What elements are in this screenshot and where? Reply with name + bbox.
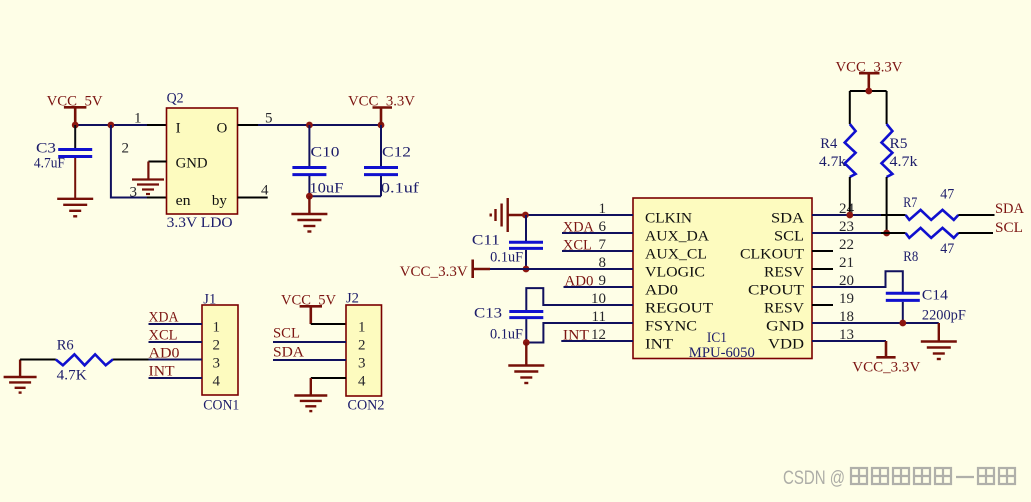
- svg-text:SDA: SDA: [273, 344, 304, 360]
- capacitor C12: [364, 125, 419, 197]
- svg-text:4.7K: 4.7K: [57, 367, 87, 383]
- wire REGOUT (pin 10) with step to C13: [526, 288, 633, 310]
- svg-text:VCC_3.3V: VCC_3.3V: [852, 359, 920, 375]
- wire VDD (pin 13): [812, 340, 886, 342]
- pin 1 stub of Q2: [147, 124, 167, 126]
- wire CPOUT (pin 20) with step to C14: [812, 271, 903, 292]
- power flag VCC_5V (J2): [300, 306, 322, 324]
- svg-text:SCL: SCL: [273, 326, 300, 342]
- svg-text:SCL: SCL: [774, 229, 804, 245]
- svg-text:CSDN @: CSDN @: [783, 468, 845, 489]
- svg-text:VCC_3.3V: VCC_3.3V: [400, 264, 468, 280]
- wire INT (pin 12): [561, 340, 633, 342]
- svg-text:R5: R5: [890, 136, 908, 152]
- svg-text:C12: C12: [382, 144, 411, 160]
- junction C14/GND: [899, 320, 906, 327]
- svg-text:4.7k: 4.7k: [890, 154, 919, 170]
- svg-text:VDD: VDD: [768, 337, 804, 353]
- wire FSYNC (pin 11) with step to C13 bottom: [526, 323, 633, 343]
- resistor R5: [882, 91, 919, 233]
- resistor R4: [819, 91, 856, 215]
- junction C12/VCC top: [378, 122, 385, 129]
- svg-text:C10: C10: [311, 144, 340, 160]
- svg-text:2: 2: [213, 338, 221, 354]
- svg-text:SCL: SCL: [995, 220, 1023, 236]
- svg-text:MPU-6050: MPU-6050: [689, 345, 755, 361]
- svg-text:47: 47: [940, 187, 954, 203]
- svg-text:19: 19: [839, 291, 854, 307]
- svg-text:CON2: CON2: [348, 398, 385, 414]
- svg-text:C3: C3: [36, 140, 56, 156]
- stub pin 21: [812, 268, 833, 270]
- svg-text:3: 3: [358, 356, 366, 372]
- junction B (branch to en): [108, 122, 115, 129]
- svg-text:C14: C14: [922, 288, 949, 304]
- svg-text:VCC_3.3V: VCC_3.3V: [348, 93, 415, 109]
- svg-text:GND: GND: [766, 319, 804, 335]
- svg-text:VCC_3.3V: VCC_3.3V: [836, 59, 903, 75]
- svg-text:XDA: XDA: [149, 309, 179, 325]
- wire AUX_CL (pin 7): [562, 250, 633, 252]
- svg-text:RESV: RESV: [764, 301, 804, 317]
- svg-text:AD0: AD0: [645, 283, 678, 299]
- svg-text:VCC_5V: VCC_5V: [281, 292, 336, 308]
- pin 5 stub of Q2 (O): [238, 124, 259, 126]
- junction R5/SCL: [883, 230, 890, 237]
- svg-text:VLOGIC: VLOGIC: [645, 265, 705, 281]
- svg-text:FSYNC: FSYNC: [645, 319, 697, 335]
- svg-text:1: 1: [358, 320, 366, 336]
- svg-text:I: I: [176, 120, 181, 136]
- svg-text:XCL: XCL: [149, 327, 178, 343]
- svg-text:VCC_5V: VCC_5V: [47, 93, 103, 109]
- svg-text:XDA: XDA: [563, 219, 594, 235]
- svg-text:4.7k: 4.7k: [819, 154, 847, 170]
- wire SCL (J2 pin2): [273, 341, 346, 343]
- svg-text:0.1uf: 0.1uf: [381, 181, 419, 197]
- wire CLKIN (pin 1): [525, 214, 633, 216]
- ground (C3): [57, 199, 93, 217]
- wire R4/R5 top bar: [850, 90, 887, 92]
- wire SCL (pin 23): [812, 232, 881, 234]
- wire branch down to en: [111, 125, 147, 198]
- svg-text:INT: INT: [563, 327, 589, 343]
- svg-text:4: 4: [261, 182, 269, 198]
- svg-text:XCL: XCL: [563, 237, 592, 253]
- wire AD0 (J1 pin3): [149, 359, 203, 361]
- wire INT (J1 pin4): [149, 377, 203, 379]
- svg-text:4.7uF: 4.7uF: [34, 155, 65, 171]
- svg-text:J2: J2: [346, 290, 359, 306]
- power port VCC_3.3V (VLOGIC): [473, 260, 490, 279]
- op-amp-like IC U1 box: ic IC1 MPU-6050: [633, 198, 812, 361]
- stub J2 pin4: [311, 377, 346, 379]
- svg-text:AUX_CL: AUX_CL: [645, 247, 707, 263]
- capacitor C10: [292, 125, 343, 197]
- svg-text:47: 47: [940, 241, 954, 257]
- power flag VCC_3.3V (LDO output): [373, 108, 393, 126]
- stub pin 22: [812, 250, 833, 252]
- wire pin5 to VCC_3.3V: [258, 124, 381, 126]
- junction VLOGIC/C11: [523, 266, 530, 273]
- junction C13 bottom: [523, 339, 530, 346]
- svg-text:INT: INT: [149, 363, 175, 379]
- svg-text:CLKIN: CLKIN: [645, 210, 692, 226]
- svg-text:C11: C11: [472, 233, 500, 249]
- svg-text:2200pF: 2200pF: [922, 308, 966, 324]
- svg-text:22: 22: [839, 237, 854, 253]
- svg-text:3.3V LDO: 3.3V LDO: [167, 215, 233, 231]
- svg-text:10uF: 10uF: [309, 181, 343, 197]
- svg-text:R8: R8: [903, 249, 918, 265]
- svg-text:Q2: Q2: [167, 90, 184, 106]
- wire AUX_DA (pin 6): [562, 232, 633, 234]
- svg-text:3: 3: [213, 356, 221, 372]
- svg-text:2: 2: [122, 141, 130, 157]
- svg-text:R7: R7: [903, 195, 917, 211]
- svg-text:3: 3: [130, 185, 138, 201]
- svg-text:RESV: RESV: [764, 265, 804, 281]
- svg-text:C13: C13: [474, 305, 502, 321]
- ground (rotated, CLKIN): [491, 198, 526, 232]
- svg-text:CON1: CON1: [203, 398, 239, 414]
- svg-text:CLKOUT: CLKOUT: [740, 247, 804, 263]
- pin 4 stub of Q2 (by): [238, 197, 268, 199]
- wire SDA (J2 pin3): [273, 359, 346, 361]
- svg-text:J1: J1: [203, 291, 216, 307]
- svg-text:INT: INT: [645, 337, 673, 353]
- power flag VCC_5V: [64, 107, 87, 125]
- regulator Q2: [167, 90, 238, 231]
- ground (C13): [508, 343, 544, 384]
- watermark CSDN: [783, 468, 1015, 489]
- svg-text:R6: R6: [57, 337, 74, 353]
- wire C10 bottom to C12 bottom: [309, 195, 381, 197]
- svg-text:0.1uF: 0.1uF: [490, 249, 523, 265]
- svg-text:4: 4: [358, 374, 366, 390]
- capacitor C11: [472, 215, 543, 269]
- capacitor C13: [474, 305, 543, 342]
- ground (R6): [4, 360, 37, 393]
- wire XDA (J1 pin1): [149, 323, 203, 325]
- wire/stub J2 pin1: [311, 323, 346, 325]
- connector J2: [346, 290, 385, 413]
- svg-text:4: 4: [213, 374, 221, 390]
- svg-text:SDA: SDA: [771, 210, 804, 226]
- svg-text:GND: GND: [176, 156, 208, 172]
- svg-text:R4: R4: [820, 136, 837, 152]
- pin 2 stub of Q2: [148, 161, 166, 163]
- wire GND (pin 18): [812, 322, 939, 324]
- junction A (VCC_5V / C3): [72, 122, 79, 129]
- resistor R6: [20, 337, 148, 383]
- resistor R8: [881, 228, 993, 265]
- svg-text:CPOUT: CPOUT: [748, 283, 804, 299]
- capacitor C3: [34, 125, 92, 198]
- svg-text:21: 21: [839, 255, 854, 271]
- wire AD0 (pin 9): [564, 286, 634, 288]
- svg-text:SDA: SDA: [995, 201, 1024, 217]
- svg-text:0.1uF: 0.1uF: [490, 327, 523, 343]
- junction CLKIN/C11: [522, 212, 529, 219]
- ground (pin 18): [921, 323, 957, 359]
- connector J1: [202, 291, 239, 413]
- ground (Q2 pin 2): [132, 162, 164, 195]
- stub pin 19: [812, 304, 833, 306]
- wire SDA (pin 24): [812, 214, 881, 216]
- ground (C10): [291, 196, 327, 231]
- svg-text:by: by: [212, 193, 228, 209]
- wire XCL (J1 pin2): [149, 341, 203, 343]
- svg-text:AD0: AD0: [149, 345, 180, 361]
- junction VCC/R4R5: [865, 88, 872, 95]
- power flag VCC_3.3V (pull-ups): [859, 73, 880, 91]
- svg-text:en: en: [176, 193, 192, 209]
- ground (J2 pin4): [294, 378, 327, 411]
- svg-text:2: 2: [358, 338, 366, 354]
- svg-text:AD0: AD0: [565, 273, 594, 289]
- junction C10 bottom: [306, 193, 313, 200]
- junction C10 top: [306, 122, 313, 129]
- svg-text:REGOUT: REGOUT: [645, 301, 713, 317]
- svg-text:AUX_DA: AUX_DA: [645, 229, 709, 245]
- power flag VCC_3.3V (VDD, downward): [876, 341, 895, 357]
- wire VLOGIC (pin 8): [490, 268, 633, 270]
- pin 3 stub of Q2: [147, 197, 167, 199]
- svg-text:1: 1: [213, 320, 221, 336]
- junction R4/SDA: [846, 212, 853, 219]
- wire pin1 net: [75, 124, 147, 126]
- svg-text:O: O: [217, 120, 228, 136]
- svg-text:IC1: IC1: [707, 330, 727, 346]
- capacitor C14: [886, 288, 966, 324]
- svg-text:1: 1: [134, 111, 142, 127]
- resistor R7: [881, 187, 995, 220]
